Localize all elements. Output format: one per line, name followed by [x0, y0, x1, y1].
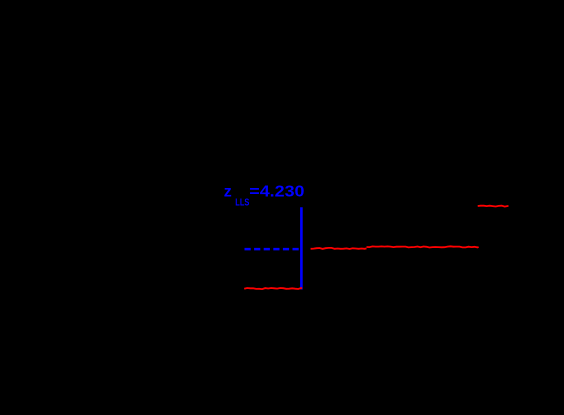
svg-text:z: z	[224, 184, 233, 201]
red spectrum left of break	[244, 288, 302, 289]
red spectrum right of break part 1	[311, 248, 367, 249]
red spectrum right of break part 2	[367, 246, 479, 247]
svg-text:LLS: LLS	[235, 196, 249, 208]
red spectrum upper segment	[478, 205, 509, 208]
svg-text:=4.230: =4.230	[249, 184, 304, 201]
dashed continuum line	[245, 248, 300, 251]
label z_LLS=4.230	[224, 184, 305, 209]
vertical break line	[300, 207, 303, 289]
